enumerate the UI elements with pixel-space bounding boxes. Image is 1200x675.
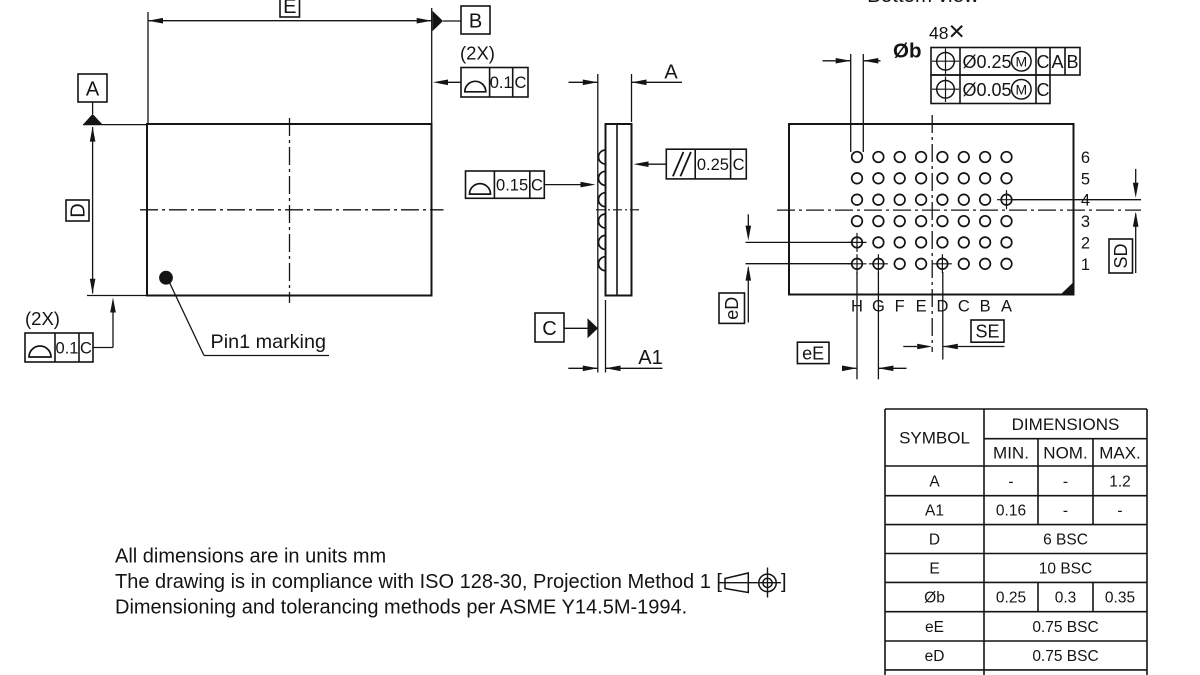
feature control frame profile 0.1 C (top right) bbox=[461, 68, 528, 98]
dimensions table grid bbox=[885, 409, 1147, 675]
seating plane line bbox=[597, 74, 599, 373]
table row A1 bbox=[925, 503, 1123, 520]
SD reference line from ball A4 bbox=[1013, 199, 1141, 201]
datum C label box bbox=[535, 313, 564, 342]
svg-text:Bottom view: Bottom view bbox=[867, 0, 979, 7]
svg-text:C: C bbox=[514, 74, 526, 92]
feature control frame parallel 0.25 C bbox=[666, 149, 746, 179]
bottom view horizontal center line bbox=[777, 209, 1141, 211]
eD reference lines from balls H2 and H1 bbox=[746, 242, 852, 263]
svg-text:4: 4 bbox=[1081, 192, 1090, 210]
feature control frame profile 0.15 C bbox=[466, 171, 545, 198]
svg-text:A: A bbox=[1001, 298, 1012, 316]
svg-text:C: C bbox=[80, 340, 92, 358]
svg-text:0.75 BSC: 0.75 BSC bbox=[1032, 619, 1098, 636]
bottom view vertical center line bbox=[931, 115, 933, 352]
bottom view corner chamfer triangle bbox=[1062, 283, 1073, 294]
dimension label diameter b bbox=[893, 40, 921, 63]
note 2X for top-right feature control frame bbox=[460, 43, 495, 64]
svg-text:A: A bbox=[929, 473, 940, 490]
note 48X bbox=[929, 16, 965, 47]
svg-text:C: C bbox=[1037, 52, 1050, 72]
table row eE bbox=[925, 619, 1099, 636]
svg-text:-: - bbox=[1063, 503, 1068, 520]
svg-text:A1: A1 bbox=[925, 503, 944, 520]
side view body outline bbox=[606, 124, 632, 296]
feature control frame position 0.25 M C A B bbox=[931, 48, 1080, 76]
table row diameter b bbox=[924, 590, 1135, 607]
svg-text:×: × bbox=[949, 16, 965, 47]
svg-text:E: E bbox=[283, 0, 296, 18]
dimension A extension line right bbox=[631, 74, 633, 122]
svg-text:A: A bbox=[664, 61, 678, 83]
dimension line for diameter b bbox=[823, 58, 881, 64]
dimension E extension line left bbox=[147, 12, 149, 123]
row labels 6 5 4 3 2 1 bbox=[1081, 149, 1090, 274]
svg-text:-: - bbox=[1063, 473, 1068, 490]
svg-text:NOM.: NOM. bbox=[1043, 444, 1087, 463]
datum A label box bbox=[78, 74, 107, 102]
svg-text:M: M bbox=[1015, 53, 1027, 69]
table row A bbox=[929, 473, 1130, 490]
pin1 marking dot bbox=[159, 271, 173, 285]
svg-text:MIN.: MIN. bbox=[993, 444, 1029, 463]
svg-text:MAX.: MAX. bbox=[1099, 444, 1141, 463]
dimension D top extension line bbox=[83, 124, 147, 126]
svg-text:eE: eE bbox=[802, 343, 824, 363]
dimension E extension line right bbox=[431, 8, 433, 124]
dimension E line with arrows bbox=[148, 18, 432, 24]
top view package outline bbox=[147, 124, 432, 296]
svg-text:6: 6 bbox=[1081, 149, 1090, 167]
side view center line bbox=[596, 209, 641, 211]
svg-text:3: 3 bbox=[1081, 213, 1090, 231]
dimension label eD boxed rotated bbox=[719, 293, 745, 323]
svg-text:A: A bbox=[86, 79, 100, 101]
svg-text:(2X): (2X) bbox=[460, 43, 495, 64]
feature control frame position 0.05 M C bbox=[931, 75, 1050, 104]
svg-text:Ø0.05: Ø0.05 bbox=[963, 80, 1012, 100]
note line 2 bbox=[115, 571, 722, 593]
svg-text:B: B bbox=[469, 11, 482, 33]
projection method symbol bbox=[719, 568, 787, 598]
table row E bbox=[929, 561, 1092, 578]
note 2X for bottom-left feature control frame bbox=[25, 308, 60, 329]
svg-text:0.3: 0.3 bbox=[1055, 590, 1077, 607]
svg-text:2: 2 bbox=[1081, 234, 1090, 252]
eE dimension line with arrows bbox=[842, 366, 907, 372]
svg-text:E: E bbox=[929, 561, 939, 578]
svg-text:0.15: 0.15 bbox=[496, 177, 528, 195]
leader arrow to seating plane bbox=[544, 182, 595, 188]
svg-text:10 BSC: 10 BSC bbox=[1039, 561, 1092, 578]
note line 1 bbox=[115, 546, 386, 568]
crosshairs on referenced balls H2 H1 G1 D1 A4 bbox=[848, 190, 1017, 273]
svg-text:1: 1 bbox=[1081, 256, 1090, 274]
datum B label box bbox=[461, 6, 490, 34]
svg-text:B: B bbox=[1066, 52, 1078, 72]
dimension A line with arrows bbox=[569, 80, 683, 86]
svg-text:0.1: 0.1 bbox=[56, 340, 79, 358]
column labels H G F E D C B A bbox=[851, 298, 1012, 316]
datum A symbol triangle bbox=[83, 102, 102, 124]
svg-text:SD: SD bbox=[1111, 243, 1131, 268]
svg-text:E: E bbox=[916, 298, 927, 316]
datum B symbol triangle bbox=[432, 11, 461, 32]
svg-text:48: 48 bbox=[929, 23, 948, 43]
dimension label A bbox=[664, 61, 678, 83]
dimension label eE boxed bbox=[797, 342, 829, 363]
note line 3 bbox=[115, 597, 687, 619]
svg-text:B: B bbox=[980, 298, 991, 316]
top view horizontal center line bbox=[140, 209, 444, 211]
svg-text:Pin1 marking: Pin1 marking bbox=[211, 331, 326, 353]
solder ball grid 48 balls bbox=[852, 152, 1012, 269]
svg-text:Ø0.25: Ø0.25 bbox=[963, 52, 1012, 72]
dimension D bottom extension line bbox=[87, 295, 147, 297]
svg-text:0.75 BSC: 0.75 BSC bbox=[1032, 648, 1098, 665]
SD dimension arrows bbox=[1133, 169, 1139, 273]
leader arrow to body right edge bbox=[634, 161, 667, 167]
svg-text:(2X): (2X) bbox=[25, 308, 60, 329]
svg-text:0.25: 0.25 bbox=[697, 156, 729, 174]
leader arrow from frame to right edge extension bbox=[433, 80, 461, 86]
svg-text:C: C bbox=[531, 177, 543, 195]
svg-text:0.35: 0.35 bbox=[1105, 590, 1135, 607]
svg-text:]: ] bbox=[781, 571, 787, 593]
diameter b tangent extension lines bbox=[851, 54, 864, 152]
svg-text:0.16: 0.16 bbox=[996, 503, 1026, 520]
svg-text:eD: eD bbox=[722, 297, 742, 320]
side view solder ball bumps bbox=[599, 150, 606, 271]
svg-text:D: D bbox=[929, 532, 940, 549]
svg-text:C: C bbox=[1037, 80, 1050, 100]
pin1 leader line bbox=[169, 282, 329, 356]
SE dimension line with arrows bbox=[903, 344, 1004, 350]
table header texts bbox=[899, 415, 1141, 462]
svg-text:0.25: 0.25 bbox=[996, 590, 1026, 607]
feature control frame profile 0.1 C (bottom left) bbox=[25, 333, 93, 362]
dimension label SE boxed bbox=[971, 320, 1004, 342]
title Bottom view (cut off at top edge) bbox=[867, 0, 979, 7]
svg-text:0.1: 0.1 bbox=[490, 74, 513, 92]
svg-text:eE: eE bbox=[925, 619, 944, 636]
svg-text:-: - bbox=[1117, 503, 1122, 520]
svg-text:F: F bbox=[895, 298, 905, 316]
svg-text:A: A bbox=[1051, 52, 1063, 72]
svg-text:5: 5 bbox=[1081, 170, 1090, 188]
svg-text:C: C bbox=[542, 318, 556, 340]
dimension A1 extension line (body bottom left) bbox=[605, 300, 607, 373]
dimension label A1 bbox=[638, 347, 662, 369]
svg-text:Øb: Øb bbox=[893, 40, 921, 63]
svg-text:C: C bbox=[733, 156, 745, 174]
svg-text:SE: SE bbox=[975, 322, 999, 342]
dimension label D boxed rotated bbox=[66, 200, 90, 221]
dimension A1 line with arrows bbox=[568, 366, 662, 372]
top view vertical center line bbox=[289, 118, 291, 303]
dimension D line with arrows bbox=[90, 127, 96, 294]
datum C symbol triangle bbox=[564, 318, 598, 338]
eD dimension arrows bbox=[746, 214, 752, 322]
svg-text:DIMENSIONS: DIMENSIONS bbox=[1012, 415, 1120, 434]
svg-text:Øb: Øb bbox=[924, 590, 945, 607]
dimension label SD boxed rotated bbox=[1109, 239, 1133, 273]
table row eD bbox=[925, 648, 1099, 665]
bottom view package outline bbox=[789, 124, 1074, 295]
svg-text:D: D bbox=[68, 203, 90, 217]
svg-text:1.2: 1.2 bbox=[1109, 473, 1131, 490]
svg-text:C: C bbox=[958, 298, 970, 316]
leader from frame up to bottom extension line bbox=[93, 298, 116, 348]
dimension label E boxed bbox=[280, 0, 300, 18]
svg-text:SYMBOL: SYMBOL bbox=[899, 429, 970, 448]
svg-text:eD: eD bbox=[925, 648, 945, 665]
svg-text:All dimensions are in units mm: All dimensions are in units mm bbox=[115, 546, 386, 568]
svg-text:The drawing is in compliance w: The drawing is in compliance with ISO 12… bbox=[115, 571, 722, 593]
svg-text:6 BSC: 6 BSC bbox=[1043, 532, 1088, 549]
eE reference lines from balls H1 G1 bbox=[857, 272, 878, 379]
svg-text:M: M bbox=[1015, 81, 1027, 97]
table row D bbox=[929, 532, 1088, 549]
label Pin1 marking bbox=[211, 331, 326, 353]
svg-text:-: - bbox=[1008, 473, 1013, 490]
svg-text:Dimensioning and tolerancing m: Dimensioning and tolerancing methods per… bbox=[115, 597, 687, 619]
SE reference line from ball D1 bbox=[942, 272, 944, 360]
svg-text:A1: A1 bbox=[638, 347, 662, 369]
